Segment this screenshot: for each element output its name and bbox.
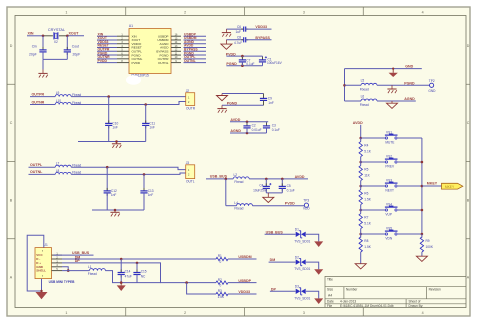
pin 7 of U1 — [117, 58, 129, 60]
svg-text:AGND: AGND — [404, 97, 415, 101]
net label XIN — [97, 35, 117, 37]
wire — [344, 69, 346, 101]
wire — [105, 271, 160, 283]
ground (signal) — [416, 256, 427, 261]
capacitor C15 NC — [136, 263, 138, 273]
net label PGND — [184, 54, 207, 56]
junction node — [143, 173, 146, 176]
wire — [398, 233, 422, 235]
svg-text:VDD: VDD — [303, 207, 310, 211]
svg-text:File: File — [327, 304, 332, 308]
inductor L6 Fbead — [345, 100, 362, 102]
wire shell loop — [27, 235, 44, 291]
svg-text:TVS_SD01: TVS_SD01 — [294, 239, 310, 243]
ground (signal) — [355, 264, 366, 269]
junction node — [241, 55, 244, 58]
pin 15 of U1 — [171, 39, 181, 41]
svg-text:Sheet of: Sheet of — [409, 300, 421, 304]
junction node — [359, 233, 362, 236]
resistor R1 0 — [216, 257, 228, 260]
capacitor C1 100uF16V polarized — [262, 56, 264, 60]
test point TP3 VDD — [304, 203, 308, 207]
capacitor C10 1nF — [108, 97, 110, 124]
svg-text:PVDD: PVDD — [132, 61, 141, 65]
junction node — [185, 281, 188, 284]
svg-text:C14: C14 — [125, 269, 131, 273]
chassis ground — [391, 85, 393, 89]
svg-text:Cin: Cin — [32, 45, 37, 49]
junction node — [343, 84, 346, 87]
svg-text:C: C — [10, 121, 13, 125]
svg-text:J1: J1 — [44, 243, 48, 247]
pin 5 of J1 SHELL — [52, 270, 63, 272]
svg-text:VS3: VS3 — [386, 179, 392, 183]
svg-text:OUTPL: OUTPL — [30, 163, 43, 167]
wire — [92, 209, 144, 211]
svg-text:Fbead: Fbead — [234, 207, 243, 211]
net label USBDM — [184, 39, 207, 41]
net label OUTPL — [184, 58, 207, 60]
svg-text:1nF: 1nF — [148, 193, 154, 197]
capacitor Cin 20pF — [42, 36, 44, 50]
resistor R3 1.5K — [216, 292, 228, 295]
svg-text:AVDD: AVDD — [295, 175, 305, 179]
svg-text:1uF: 1uF — [236, 30, 242, 34]
junction node — [114, 209, 117, 212]
svg-text:X2: X2 — [54, 40, 58, 44]
svg-text:20pF: 20pF — [29, 52, 37, 56]
chassis ground — [42, 70, 44, 74]
capacitor C9 1nF — [263, 94, 265, 99]
inductor L9 Fbead — [55, 95, 71, 97]
wire — [62, 258, 216, 260]
svg-text:R5: R5 — [364, 168, 368, 172]
svg-text:Fbead: Fbead — [360, 103, 369, 107]
wire — [225, 29, 227, 32]
pin 2 of J1 D - — [52, 258, 63, 260]
svg-text:R6: R6 — [364, 192, 368, 196]
wire — [187, 283, 216, 294]
svg-text:3: 3 — [303, 10, 305, 14]
svg-text:1nF: 1nF — [111, 193, 117, 197]
resistor R5 11K — [360, 162, 362, 166]
svg-text:L9: L9 — [56, 91, 60, 95]
svg-text:Fbead: Fbead — [88, 272, 97, 276]
svg-text:OUTNL: OUTNL — [184, 59, 196, 63]
svg-text:1: 1 — [65, 311, 67, 315]
svg-text:C4: C4 — [259, 183, 263, 187]
wire — [226, 65, 262, 67]
svg-text:1.5K: 1.5K — [364, 198, 371, 202]
svg-text:GND: GND — [428, 89, 436, 93]
wire — [226, 28, 243, 30]
net label RESET — [97, 47, 117, 49]
junction node — [359, 161, 362, 164]
diode D3 TVS_SD01 — [296, 289, 301, 294]
power ground GND arrow — [314, 298, 323, 304]
net label XOUT — [97, 39, 117, 41]
svg-text:R8: R8 — [364, 239, 368, 243]
svg-text:1.5K: 1.5K — [364, 245, 371, 249]
svg-text:USBDM: USBDM — [238, 255, 251, 259]
svg-text:Cout: Cout — [72, 45, 79, 49]
svg-text:CRYSTAL: CRYSTAL — [48, 28, 65, 32]
svg-text:5.1K: 5.1K — [364, 222, 371, 226]
svg-text:Title: Title — [327, 277, 333, 281]
wire — [361, 137, 386, 139]
svg-text:PVDD: PVDD — [285, 202, 295, 206]
pin 12 of U1 — [171, 50, 181, 52]
capacitor C14 47uF — [120, 259, 122, 273]
pin 10 of U1 — [171, 58, 181, 60]
svg-text:1.5K: 1.5K — [218, 295, 225, 299]
svg-text:2: 2 — [184, 10, 186, 14]
junction node — [136, 262, 139, 265]
diode D1 TVS_SD01 — [296, 232, 301, 237]
svg-text:PGND: PGND — [227, 101, 238, 105]
wire — [345, 68, 422, 70]
wire — [30, 96, 55, 98]
inductor L8 Fbead — [55, 172, 71, 174]
svg-text:0: 0 — [220, 260, 222, 264]
junction node — [40, 290, 42, 292]
wire — [222, 104, 264, 106]
svg-text:E:\618\C-618\BL-1M Drum\04-01.: E:\618\C-618\BL-1M Drum\04-01.Ddb — [340, 304, 394, 308]
junction node — [359, 185, 362, 188]
diode D2 TVS_SD01 — [296, 259, 301, 264]
pushbutton VS3 NEXT — [385, 185, 387, 187]
svg-text:VUP: VUP — [385, 213, 392, 217]
junction node — [241, 64, 244, 67]
svg-text:BYPASS: BYPASS — [255, 36, 270, 40]
svg-text:100K: 100K — [426, 245, 434, 249]
wire — [246, 28, 272, 30]
wire — [54, 254, 94, 256]
pin 3 of U1 — [117, 43, 129, 45]
svg-text:4: 4 — [422, 311, 424, 315]
net label PVDD — [97, 62, 117, 64]
svg-text:USB MINI TYPEB: USB MINI TYPEB — [49, 280, 76, 284]
power ground GND arrow — [36, 292, 48, 299]
svg-text:OUTL: OUTL — [186, 180, 195, 184]
svg-text:TP3: TP3 — [303, 198, 309, 202]
wire — [67, 35, 84, 37]
wire — [253, 205, 305, 207]
wire — [41, 279, 43, 291]
svg-text:2: 2 — [184, 311, 186, 315]
resistor R2 0 — [216, 281, 228, 284]
wire — [398, 185, 422, 187]
net label PGND — [97, 54, 117, 56]
svg-text:J3: J3 — [186, 161, 190, 165]
wire — [265, 233, 296, 235]
resistor R9 100K — [421, 234, 423, 238]
junction node — [281, 178, 284, 181]
pin 3 of J1 D + — [52, 262, 63, 264]
IC U1 body — [129, 29, 171, 74]
svg-text:NEXT: NEXT — [385, 189, 394, 193]
chassis ground — [221, 105, 223, 108]
svg-text:Date: Date — [327, 300, 334, 304]
pin 1 of U1 — [117, 35, 129, 37]
net label USBDP — [184, 35, 207, 37]
pushbutton VS4 VUP — [385, 209, 387, 211]
svg-text:VS4: VS4 — [386, 203, 392, 207]
inductor L1 Fbead — [89, 269, 105, 271]
junction node — [246, 121, 249, 124]
wire — [62, 267, 68, 271]
pin 4 of U1 — [117, 47, 129, 49]
inductor L7 Fbead — [55, 165, 71, 167]
pin 11 of U1 — [171, 54, 181, 56]
svg-text:R9: R9 — [426, 239, 430, 243]
pin 5 of U1 — [117, 50, 129, 52]
svg-text:11K: 11K — [364, 174, 370, 178]
svg-text:1nF: 1nF — [112, 126, 118, 130]
junction node — [246, 132, 249, 135]
wire — [266, 192, 282, 194]
svg-text:0.1uF: 0.1uF — [246, 62, 254, 66]
svg-text:USB_BUS: USB_BUS — [266, 230, 284, 234]
wire — [43, 35, 53, 37]
wire — [269, 261, 296, 263]
svg-text:OUTNL: OUTNL — [30, 170, 43, 174]
wire — [361, 209, 386, 211]
junction node — [106, 166, 109, 169]
pin 8 of U1 — [117, 62, 129, 64]
wire — [206, 178, 233, 180]
inductor L10 Fbead — [55, 103, 71, 105]
chassis ground — [114, 210, 116, 212]
junction node — [265, 178, 268, 181]
net label OUTNL — [184, 62, 207, 64]
svg-text:USBDP: USBDP — [238, 279, 251, 283]
ground (signal) — [267, 193, 269, 197]
wire — [270, 290, 296, 292]
wire — [398, 137, 422, 139]
svg-text:C: C — [467, 121, 470, 125]
wire — [228, 282, 257, 284]
pushbutton VS1 MUTE — [385, 137, 387, 139]
junction node — [421, 233, 424, 236]
port MKEY — [442, 183, 463, 189]
wire — [222, 93, 264, 95]
svg-text:Fbead: Fbead — [360, 87, 369, 91]
inductor L4 Fbead — [226, 205, 237, 207]
junction node — [421, 161, 424, 164]
wire — [228, 293, 257, 295]
resistor R7 5.1K — [360, 210, 362, 214]
svg-text:C9: C9 — [268, 96, 272, 100]
junction node — [359, 209, 362, 212]
svg-text:TP2: TP2 — [429, 79, 435, 83]
svg-text:L2: L2 — [234, 173, 238, 177]
pushbutton VS5 VDN — [385, 233, 387, 235]
svg-text:VDN: VDN — [385, 237, 392, 241]
svg-text:R2: R2 — [218, 278, 222, 282]
wire — [398, 209, 422, 211]
svg-text:MKEY: MKEY — [445, 185, 455, 189]
svg-text:D3: D3 — [295, 285, 299, 289]
svg-text:GND: GND — [405, 65, 413, 69]
wire — [422, 185, 442, 187]
junction node — [67, 269, 70, 272]
svg-text:PREV: PREV — [385, 165, 395, 169]
svg-text:Drawn By:: Drawn By: — [409, 304, 424, 308]
wire — [361, 233, 386, 235]
wire — [71, 167, 186, 169]
test point TP2 GND — [430, 83, 434, 87]
wire — [43, 58, 67, 60]
wire — [377, 84, 429, 86]
capacitor C8 4.7uF — [241, 39, 244, 41]
junction node — [421, 209, 424, 212]
junction node — [392, 68, 394, 70]
svg-text:0.1uF: 0.1uF — [287, 188, 295, 192]
power ground GND arrow — [314, 269, 323, 275]
junction node XOUT — [66, 35, 69, 38]
svg-text:0.01uF: 0.01uF — [252, 128, 262, 132]
svg-text:L4: L4 — [234, 201, 238, 205]
net label OUTPR — [97, 50, 117, 52]
wire — [249, 178, 308, 180]
svg-text:XIN: XIN — [28, 32, 34, 36]
crystal X2 — [53, 32, 55, 39]
wire — [225, 179, 227, 206]
svg-text:PVDD: PVDD — [98, 59, 108, 63]
svg-text:SHELL: SHELL — [36, 269, 46, 273]
svg-text:OUTNR: OUTNR — [32, 100, 45, 104]
wire — [398, 161, 422, 163]
svg-text:VS5: VS5 — [386, 227, 392, 231]
junction node — [120, 258, 123, 261]
svg-text:4.7uF: 4.7uF — [234, 41, 242, 45]
pin 14 of U1 — [171, 43, 181, 45]
svg-text:C8: C8 — [237, 36, 241, 40]
capacitor C5 0.1uF — [281, 179, 283, 187]
svg-text:Number: Number — [346, 288, 358, 292]
svg-text:VDD33: VDD33 — [238, 290, 250, 294]
junction node — [107, 95, 110, 98]
power ground GND arrow — [120, 283, 122, 286]
svg-text:U1: U1 — [129, 24, 133, 28]
svg-text:MUTE: MUTE — [385, 141, 394, 145]
svg-text:Revision: Revision — [429, 288, 441, 292]
svg-text:R7: R7 — [364, 216, 368, 220]
svg-text:L8: L8 — [56, 169, 60, 173]
svg-text:3: 3 — [303, 311, 305, 315]
svg-text:10uF25V: 10uF25V — [253, 188, 267, 192]
ground (signal) — [391, 101, 393, 103]
wire — [62, 270, 89, 272]
net label BYPASS — [184, 50, 207, 52]
capacitor C11 1nF — [145, 105, 147, 124]
wire right rail — [421, 138, 423, 234]
net label VDD33 — [97, 43, 117, 45]
svg-text:0.1uF: 0.1uF — [272, 128, 280, 132]
svg-text:Fbead: Fbead — [234, 180, 243, 184]
capacitor Cout 20pF — [66, 36, 68, 50]
junction node — [225, 178, 228, 181]
svg-text:OUTNL: OUTNL — [158, 61, 169, 65]
wire — [306, 234, 319, 241]
resistor R8 1.5K — [360, 234, 362, 238]
wire — [361, 161, 386, 163]
svg-text:100uF16V: 100uF16V — [267, 61, 283, 65]
chassis ground — [222, 32, 231, 34]
svg-text:R4: R4 — [364, 144, 368, 148]
svg-text:VS1: VS1 — [386, 131, 392, 135]
svg-text:4: 4 — [422, 10, 424, 14]
svg-text:D2: D2 — [295, 255, 299, 259]
wire — [29, 173, 56, 175]
svg-text:PGND: PGND — [404, 81, 415, 85]
pin 6 of U1 — [117, 54, 129, 56]
net label AGND — [184, 43, 207, 45]
white blob annotation — [126, 75, 141, 85]
svg-text:TVS_SD01: TVS_SD01 — [294, 296, 310, 300]
junction node — [115, 140, 118, 143]
wire — [228, 258, 257, 260]
wire — [225, 40, 227, 44]
net label OUTNR — [97, 58, 117, 60]
wire — [360, 125, 362, 138]
svg-text:D: D — [467, 44, 470, 48]
capacitor C7 0.1uF — [241, 56, 243, 60]
wire — [377, 100, 416, 102]
svg-text:1nF: 1nF — [149, 126, 155, 130]
ground (signal) — [221, 94, 223, 96]
svg-text:4-Jan-2013: 4-Jan-2013 — [340, 300, 356, 304]
svg-text:NC: NC — [141, 274, 146, 278]
wire — [78, 141, 146, 143]
capacitor C2 0.01uF — [246, 122, 248, 126]
pin 13 of U1 — [171, 47, 181, 49]
svg-text:OUTR: OUTR — [186, 107, 196, 111]
capacitor C6 1uF — [241, 28, 244, 30]
capacitor C13 1nF — [143, 174, 145, 191]
svg-text:TVS_SD01: TVS_SD01 — [294, 267, 310, 271]
resistor R4 5.1K — [360, 138, 362, 142]
svg-text:A4: A4 — [328, 294, 332, 298]
inductor L5 Fbead — [345, 84, 362, 86]
svg-text:1nF: 1nF — [268, 101, 274, 105]
junction node — [120, 281, 123, 284]
svg-text:R1: R1 — [218, 254, 222, 258]
power ground GND arrow — [314, 241, 323, 247]
svg-text:L5: L5 — [361, 79, 365, 83]
title block — [325, 276, 466, 307]
pushbutton VS2 PREV — [385, 161, 387, 163]
capacitor C12 1nF — [106, 167, 108, 191]
chassis ground — [116, 142, 118, 144]
svg-text:OUTPR: OUTPR — [32, 93, 45, 97]
svg-text:D: D — [10, 44, 13, 48]
wire — [71, 102, 186, 105]
net label AVDD — [184, 47, 207, 49]
wire — [230, 121, 268, 123]
wire — [71, 173, 186, 174]
wire — [230, 132, 267, 134]
wire — [29, 166, 56, 168]
wire — [246, 39, 272, 41]
svg-text:L7: L7 — [56, 162, 60, 166]
pin 1 of J1 VCC — [52, 254, 63, 256]
svg-text:D1: D1 — [295, 228, 299, 232]
svg-text:VDD33: VDD33 — [255, 25, 267, 29]
svg-text:1: 1 — [65, 10, 67, 14]
svg-text:USB_BUS: USB_BUS — [72, 251, 90, 255]
